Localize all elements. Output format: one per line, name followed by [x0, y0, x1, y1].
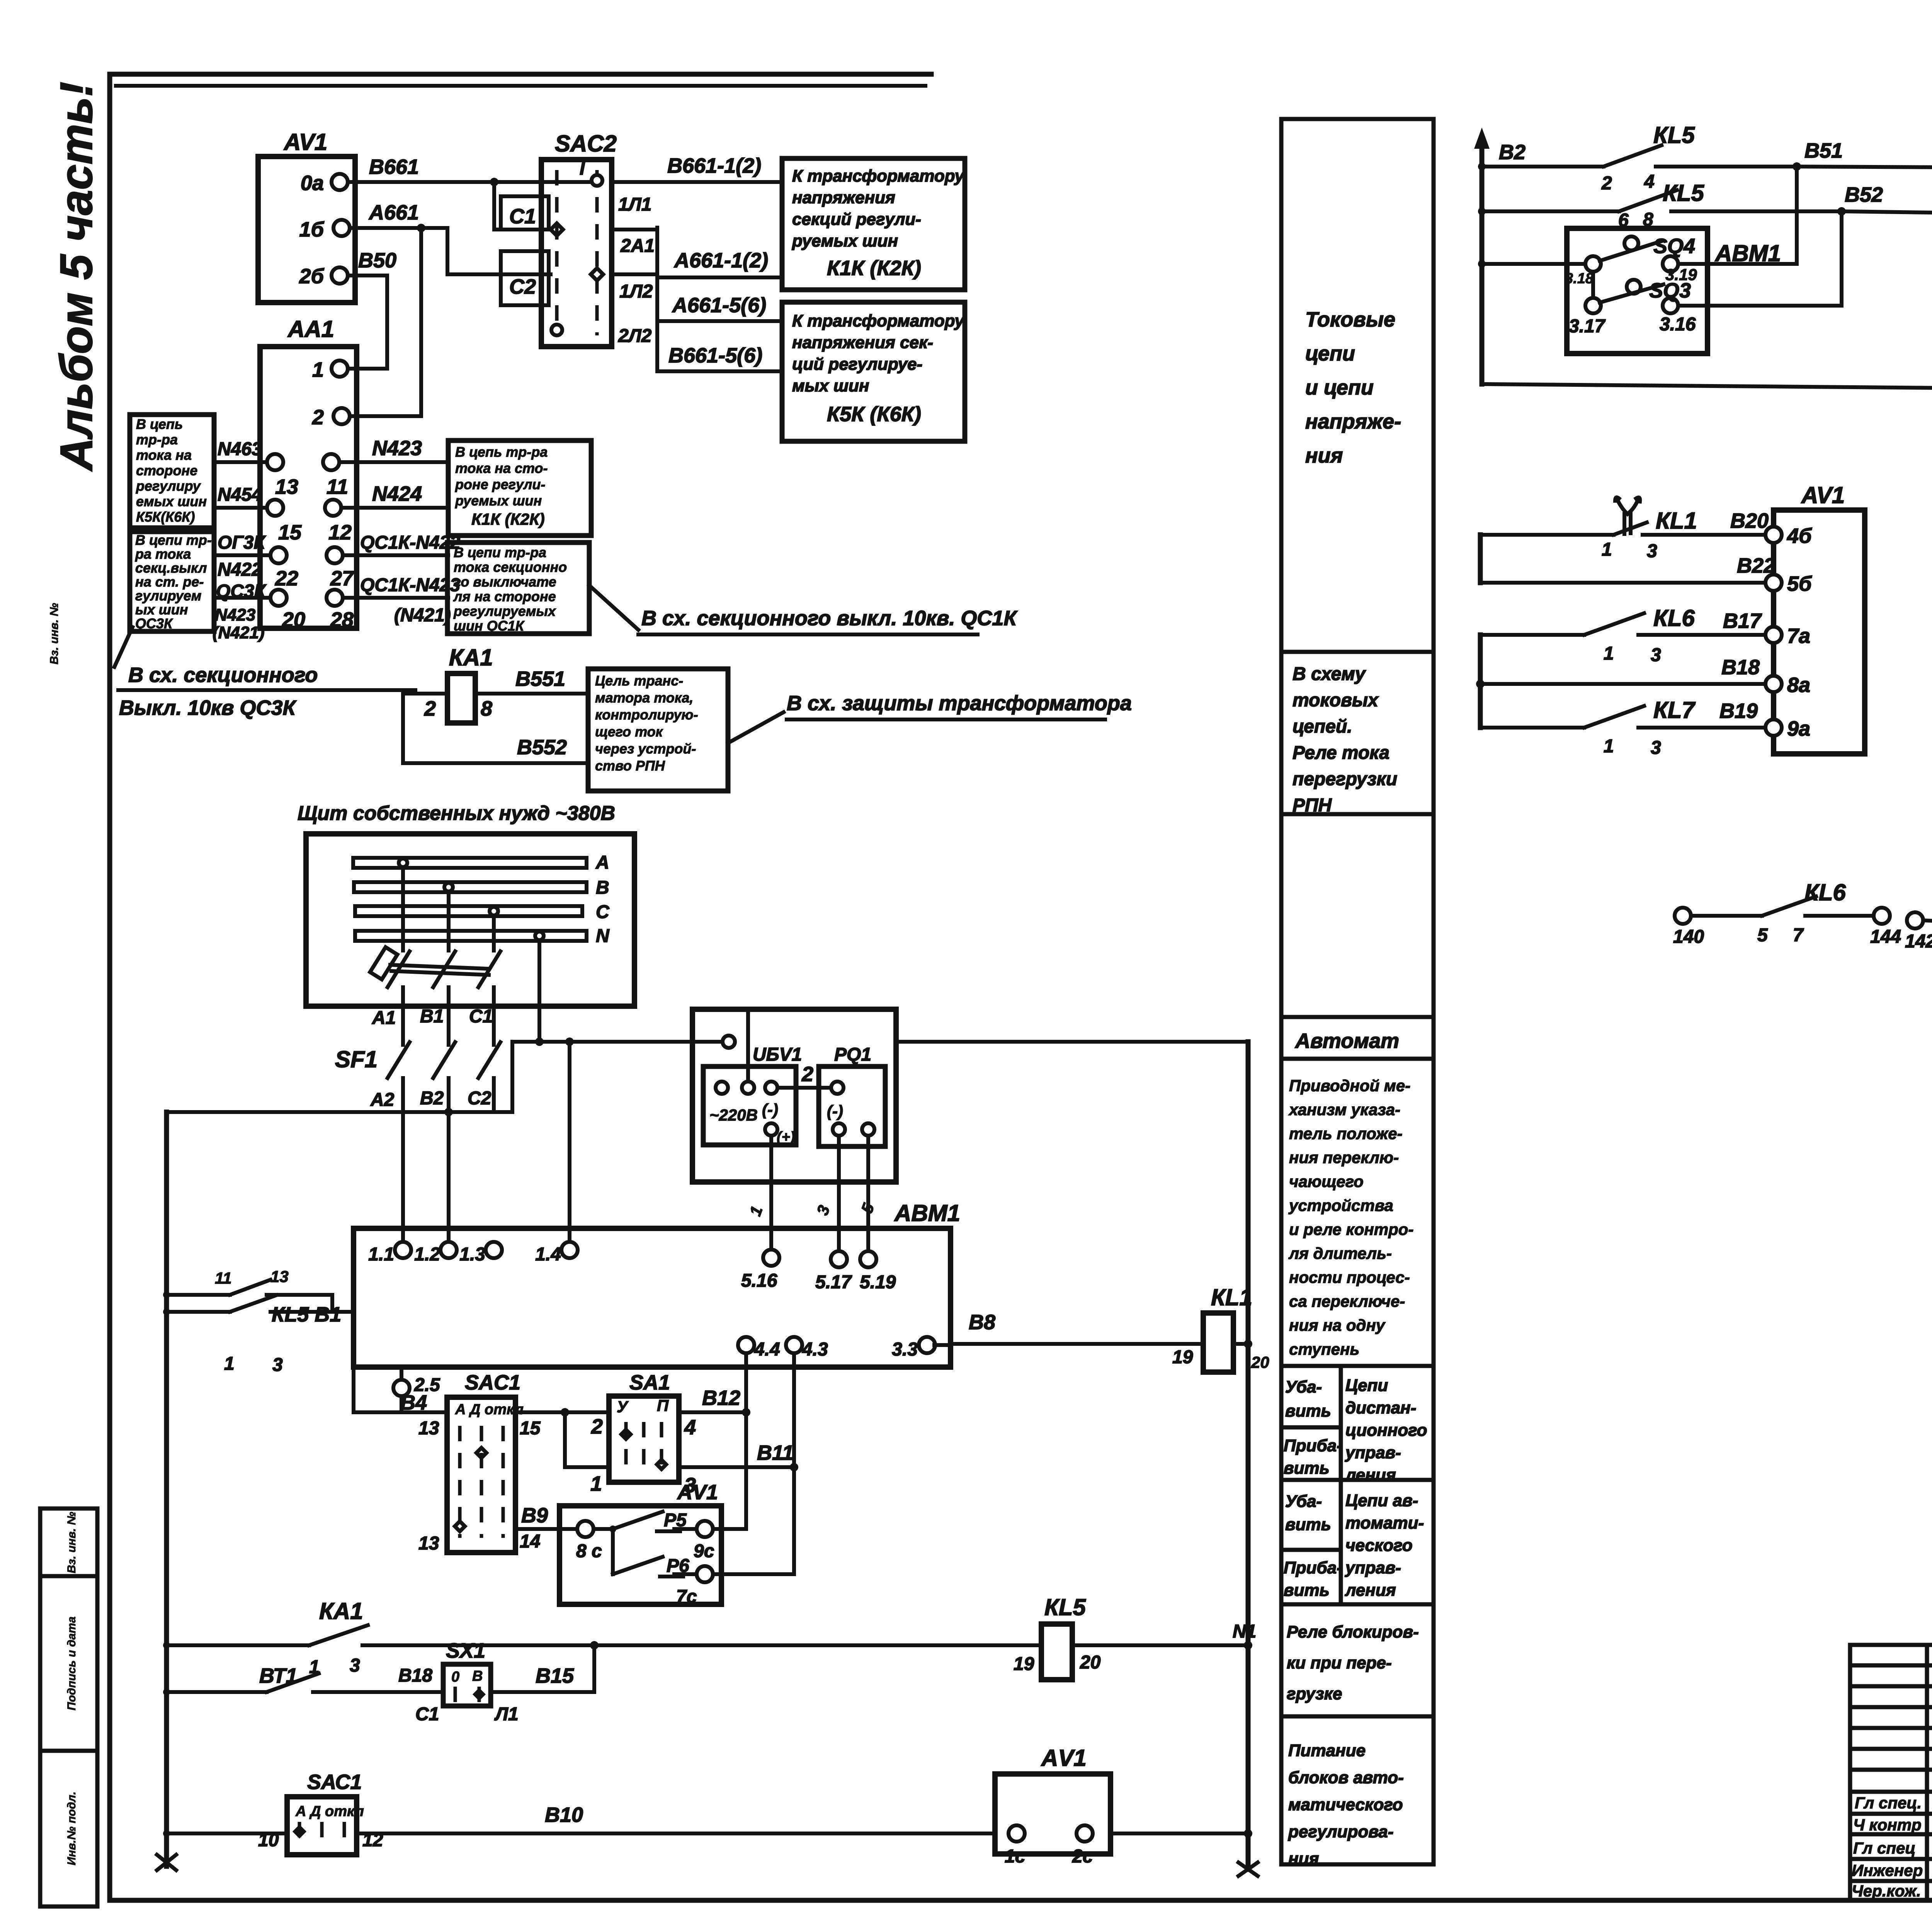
svg-text:В52: В52	[1845, 183, 1883, 206]
svg-text:Уба-: Уба-	[1285, 1378, 1322, 1396]
svg-text:Ч контр: Ч контр	[1853, 1816, 1922, 1834]
node B52	[1837, 207, 1846, 216]
svg-text:N463: N463	[218, 439, 262, 459]
svg-text:Цепи ав-: Цепи ав-	[1345, 1491, 1418, 1510]
svg-text:140: 140	[1673, 927, 1704, 947]
svg-text:ханизм указа-: ханизм указа-	[1288, 1100, 1400, 1119]
svg-text:тока на сто-: тока на сто-	[455, 460, 548, 476]
wire 2 between UБV1 and РQ1	[777, 1086, 831, 1090]
svg-text:7а: 7а	[1787, 624, 1810, 648]
busbar B	[354, 882, 587, 892]
leader to transformer protection note	[728, 712, 784, 743]
wire В15	[491, 1690, 594, 1694]
busbar C	[355, 906, 582, 916]
svg-text:А661: А661	[368, 201, 419, 224]
svg-text:ра тока: ра тока	[135, 546, 191, 562]
svg-text:АV1: АV1	[1041, 1745, 1087, 1771]
svg-text:Гл спец.: Гл спец.	[1855, 1794, 1922, 1812]
svg-text:гулируем: гулируем	[135, 588, 201, 604]
svg-text:(N421): (N421)	[394, 605, 451, 626]
svg-text:В50: В50	[358, 249, 396, 272]
svg-text:ния на одну: ния на одну	[1289, 1316, 1386, 1334]
svg-text:А Д откл: А Д откл	[295, 1803, 364, 1820]
node on В661	[490, 178, 498, 186]
distribution board box	[306, 834, 634, 1006]
svg-text:роне регули-: роне регули-	[455, 476, 545, 492]
svg-text:и цепи: и цепи	[1305, 376, 1374, 399]
riser 4.4 - B12 - 9с	[713, 1527, 746, 1531]
wire B18	[1480, 682, 1765, 686]
svg-text:П: П	[657, 1396, 669, 1415]
svg-text:управ-: управ-	[1345, 1443, 1401, 1462]
standalone contact KL6 (140-144)	[1675, 908, 1691, 924]
svg-text:управ-: управ-	[1345, 1558, 1401, 1577]
destination box: to voltage transformer K5K(K6K)	[782, 302, 965, 441]
wire А661 from AV1:1б	[350, 226, 421, 230]
position indicator UБV1	[703, 1066, 796, 1145]
svg-text:В: В	[596, 878, 609, 898]
svg-text:В10: В10	[545, 1803, 583, 1827]
svg-text:N424: N424	[372, 482, 422, 505]
pin 15 of AA1	[267, 500, 283, 516]
svg-text:КА1: КА1	[319, 1598, 363, 1624]
svg-text:19: 19	[1172, 1347, 1193, 1367]
svg-text:АА1: АА1	[287, 316, 334, 342]
pin 1б of AV1	[333, 220, 350, 236]
wire to KL4	[1482, 384, 1932, 390]
right wire N423	[339, 460, 448, 464]
svg-text:3: 3	[1651, 645, 1661, 665]
breaker QF poles	[388, 951, 410, 987]
АВМ1 pin 1.3	[486, 1242, 502, 1258]
position switch SX1	[443, 1664, 491, 1706]
svg-text:3: 3	[272, 1355, 283, 1375]
wires down to АВМ1 pins 5.16 5.17 5.19	[769, 1136, 773, 1250]
contact unit AV1 (P5/P6)	[560, 1506, 721, 1604]
АВМ1 pin 4.3	[792, 1345, 796, 1467]
pin 8а	[1765, 676, 1782, 692]
svg-text:22: 22	[275, 567, 298, 590]
supply row to drive unit	[512, 1040, 692, 1044]
riser to АВМ1 pin 1.4	[568, 1042, 571, 1250]
svg-text:КL5: КL5	[1044, 1594, 1087, 1620]
right wire N424	[341, 506, 448, 510]
svg-text:К5К(К6К): К5К(К6К)	[136, 509, 195, 525]
svg-text:5: 5	[1757, 925, 1768, 946]
svg-text:3.3: 3.3	[892, 1339, 918, 1360]
svg-text:2: 2	[591, 1415, 603, 1438]
wire В551 from КА1	[475, 692, 588, 696]
svg-text:13: 13	[275, 475, 298, 498]
switch SA1	[609, 1396, 679, 1482]
svg-text:КL5: КL5	[1663, 180, 1705, 206]
svg-text:через устрой-: через устрой-	[595, 741, 696, 757]
horizontal link to left bus	[167, 1110, 512, 1114]
svg-text:2Л2: 2Л2	[618, 326, 652, 346]
svg-text:КL5 В1: КL5 В1	[272, 1303, 341, 1326]
svg-text:РQ1: РQ1	[834, 1044, 871, 1065]
svg-text:N422: N422	[218, 560, 262, 580]
relay contact KL1 with release symbol / wire B20	[1480, 533, 1614, 537]
svg-text:Автомат: Автомат	[1294, 1029, 1399, 1053]
svg-text:~220В: ~220В	[709, 1106, 758, 1124]
svg-text:щего ток: щего ток	[595, 724, 663, 740]
pin 28 of AA1	[327, 590, 343, 606]
svg-text:2: 2	[1601, 173, 1612, 194]
АВМ1 pin 1.4	[561, 1242, 578, 1258]
svg-text:мых шин: мых шин	[792, 376, 869, 395]
svg-text:В сх. секционного выкл. 10кв.: В сх. секционного выкл. 10кв. QC1К	[641, 607, 1018, 630]
svg-text:1: 1	[312, 358, 324, 381]
svg-text:С2: С2	[468, 1088, 492, 1109]
svg-text:SХ1: SХ1	[446, 1639, 485, 1662]
relay contact KL5 (6-8)	[1619, 190, 1677, 211]
svg-text:С: С	[596, 902, 610, 922]
middle table sub-dividers	[1339, 1366, 1343, 1604]
left wires ОГ3К / N422	[214, 553, 270, 557]
node B51	[1793, 162, 1801, 171]
svg-text:перегрузки: перегрузки	[1293, 769, 1397, 789]
switch SAC1 (supply) row В10	[167, 1832, 287, 1835]
svg-text:токовых: токовых	[1293, 690, 1379, 711]
svg-text:SAC2: SAC2	[555, 131, 617, 156]
wire B22	[1480, 581, 1765, 585]
wire А661-1(2) to K1K box	[657, 276, 782, 279]
svg-text:В17: В17	[1723, 609, 1762, 633]
svg-text:А2: А2	[370, 1090, 395, 1110]
svg-text:КL5: КL5	[1653, 122, 1696, 148]
svg-text:С2: С2	[509, 275, 536, 298]
svg-text:8а: 8а	[1787, 673, 1810, 697]
wire В8 from АВМ1 3.3 to KL1	[951, 1342, 1203, 1346]
pin 9а	[1765, 719, 1782, 736]
svg-text:3.17: 3.17	[1569, 316, 1606, 337]
pin 13 of AA1	[267, 454, 283, 470]
svg-text:цепей.: цепей.	[1293, 716, 1352, 737]
C2 jog up to supply row	[494, 1042, 512, 1112]
svg-text:14: 14	[520, 1531, 540, 1552]
svg-text:го выключате: го выключате	[454, 574, 556, 590]
svg-text:2: 2	[312, 406, 324, 429]
right wire QC1К-N422	[343, 553, 448, 557]
svg-text:КL6: КL6	[1804, 879, 1846, 905]
svg-text:1: 1	[1604, 736, 1614, 757]
svg-text:ство РПН: ство РПН	[595, 758, 665, 774]
svg-text:Приводной ме-: Приводной ме-	[1289, 1077, 1410, 1095]
wire B2 / B51 row	[1482, 165, 1604, 168]
limit switch unit АВМ1	[1567, 228, 1708, 354]
svg-text:ния: ния	[1288, 1849, 1319, 1868]
svg-text:ления: ления	[1345, 1466, 1396, 1485]
svg-text:цепи: цепи	[1305, 342, 1355, 365]
pin 27 of AA1	[327, 547, 343, 563]
svg-text:В сх. секционного: В сх. секционного	[128, 663, 318, 687]
svg-text:QC3К: QC3К	[135, 616, 173, 631]
svg-text:7с: 7с	[676, 1587, 697, 1607]
busbar N	[355, 931, 587, 941]
riser from SQ4 to B51	[1795, 167, 1799, 264]
svg-text:К1К (К2К): К1К (К2К)	[827, 257, 921, 280]
svg-text:SAC1: SAC1	[465, 1371, 520, 1394]
wire В661-5(6) to K5K box	[657, 369, 782, 373]
destination box: to voltage transformer K1K(K2K)	[782, 158, 965, 290]
corner down to row H3	[352, 1312, 355, 1412]
svg-text:1с: 1с	[1005, 1846, 1025, 1867]
svg-text:матора тока,: матора тока,	[595, 690, 693, 706]
svg-text:В19: В19	[1719, 699, 1758, 723]
svg-text:КL6: КL6	[1653, 605, 1695, 631]
svg-text:устройства: устройства	[1288, 1196, 1393, 1214]
row to SAC1	[354, 1410, 447, 1414]
svg-text:ности процес-: ности процес-	[1289, 1268, 1410, 1286]
svg-text:1: 1	[590, 1472, 602, 1495]
svg-text:3: 3	[350, 1655, 360, 1676]
svg-text:144: 144	[1870, 927, 1901, 947]
bus nodes	[1478, 163, 1486, 170]
pin 0a of AV1	[332, 174, 348, 190]
svg-text:В18: В18	[1721, 656, 1760, 679]
drawing frame border	[107, 74, 112, 1900]
phase feeders down to АВМ1	[401, 1078, 405, 1250]
node on А661	[417, 224, 425, 232]
pin 5б	[1765, 575, 1782, 591]
svg-text:КL7: КL7	[1653, 697, 1696, 723]
svg-text:13: 13	[418, 1418, 439, 1439]
current contact КА1 row	[167, 1643, 309, 1647]
svg-text:В сх. защиты трансформатора: В сх. защиты трансформатора	[787, 692, 1132, 715]
destination box: CT circuit of section breaker QC1K	[447, 543, 589, 634]
riser end mark	[1238, 1862, 1258, 1876]
svg-text:QC3К: QC3К	[216, 581, 267, 602]
svg-text:ций регулируе-: ций регулируе-	[792, 355, 922, 374]
svg-text:А: А	[595, 852, 609, 873]
svg-text:1: 1	[1602, 539, 1612, 560]
svg-text:4б: 4б	[1787, 524, 1812, 548]
svg-text:емых шин: емых шин	[136, 493, 207, 509]
svg-text:Щит собственных нужд ~380В: Щит собственных нужд ~380В	[298, 802, 615, 825]
pin 8с	[577, 1521, 594, 1537]
svg-text:ля на стороне: ля на стороне	[453, 588, 556, 604]
svg-text:1.1: 1.1	[368, 1244, 394, 1265]
changeover switch SAC2	[541, 160, 612, 347]
svg-text:ОГ3К: ОГ3К	[218, 532, 266, 553]
svg-text:SQ3: SQ3	[1649, 279, 1691, 302]
svg-text:2: 2	[801, 1063, 813, 1086]
left wire N454	[214, 506, 267, 510]
bus for KL1/B22 rows	[1478, 535, 1483, 583]
pin 12 of AA1	[325, 500, 341, 516]
automatic control unit АВМ1	[354, 1228, 951, 1367]
svg-text:8: 8	[481, 697, 492, 720]
svg-text:13: 13	[418, 1533, 439, 1554]
svg-text:2: 2	[424, 697, 436, 720]
svg-text:вить: вить	[1285, 1401, 1331, 1420]
svg-text:ых шин: ых шин	[135, 602, 188, 617]
svg-text:ВТ1: ВТ1	[259, 1664, 298, 1687]
svg-text:28: 28	[330, 608, 354, 631]
left margin stamp boxes	[40, 1509, 97, 1576]
svg-text:В661: В661	[369, 155, 419, 179]
contact P5	[613, 1512, 663, 1529]
svg-text:Приба-: Приба-	[1284, 1558, 1342, 1577]
svg-text:0: 0	[451, 1669, 459, 1685]
svg-text:UБV1: UБV1	[753, 1044, 802, 1065]
KL1 release symbol	[1622, 514, 1626, 534]
svg-text:Реле тока: Реле тока	[1293, 743, 1389, 763]
svg-text:4: 4	[684, 1416, 696, 1439]
svg-text:I: I	[580, 158, 585, 179]
svg-text:SАС1: SАС1	[307, 1770, 362, 1794]
svg-text:5.17: 5.17	[815, 1272, 852, 1293]
svg-text:2б: 2б	[299, 265, 325, 288]
svg-text:Выкл. 10кв QC3К: Выкл. 10кв QC3К	[119, 696, 297, 719]
svg-text:Приба-: Приба-	[1284, 1436, 1342, 1455]
leader line to QC1K note	[589, 585, 638, 630]
svg-text:1.3: 1.3	[459, 1244, 485, 1265]
riser 4.3 - B11 - 7с	[713, 1572, 794, 1576]
svg-text:АV1: АV1	[677, 1481, 718, 1504]
svg-text:15: 15	[520, 1418, 541, 1439]
svg-text:2с: 2с	[1072, 1846, 1093, 1867]
svg-text:27: 27	[330, 567, 355, 590]
switch SAC1	[447, 1397, 515, 1553]
svg-text:В2: В2	[420, 1088, 444, 1109]
svg-text:2А1: 2А1	[620, 236, 655, 256]
relay coil KL1	[1203, 1313, 1233, 1372]
svg-text:1б: 1б	[299, 218, 325, 241]
svg-text:1.2: 1.2	[414, 1244, 440, 1265]
svg-text:3: 3	[1651, 738, 1661, 758]
staff/signature table	[1850, 1645, 1932, 1900]
svg-text:N423: N423	[215, 605, 255, 624]
svg-text:142: 142	[1905, 931, 1932, 952]
svg-text:1Л1: 1Л1	[618, 194, 651, 215]
svg-text:3.16: 3.16	[1660, 314, 1696, 335]
АВМ1 pin 4.4	[744, 1345, 748, 1412]
svg-text:7: 7	[1793, 925, 1804, 946]
svg-text:томати-: томати-	[1345, 1514, 1424, 1532]
svg-text:20: 20	[282, 608, 305, 631]
wire А661 to SAC2 C2 input	[421, 228, 551, 274]
svg-text:11: 11	[215, 1269, 232, 1287]
svg-text:4: 4	[1644, 172, 1655, 192]
svg-text:А661-5(6): А661-5(6)	[672, 294, 766, 317]
wire SAC1 to SA1	[515, 1410, 609, 1414]
left vertical bus	[164, 1112, 169, 1866]
svg-text:Вз. инв. №: Вз. инв. №	[65, 1512, 78, 1573]
svg-text:К5К (К6К): К5К (К6К)	[827, 403, 921, 426]
svg-text:N423: N423	[372, 437, 422, 460]
drive unit outer box	[692, 1009, 896, 1182]
svg-text:В11: В11	[757, 1441, 794, 1464]
main right riser	[1246, 1042, 1251, 1869]
svg-text:Подпись и дата: Подпись и дата	[65, 1616, 78, 1710]
svg-text:(-): (-)	[762, 1100, 778, 1119]
svg-text:15: 15	[278, 521, 302, 544]
svg-text:В цепи тр-ра: В цепи тр-ра	[454, 544, 546, 560]
wire В9 from SAC1	[515, 1527, 578, 1531]
svg-text:1: 1	[1604, 643, 1614, 664]
source box: circuit of CT K5K(K6K)	[130, 415, 214, 528]
svg-text:и реле контро-: и реле контро-	[1289, 1220, 1413, 1238]
svg-text:АВМ1: АВМ1	[894, 1200, 960, 1226]
limit switch SQ3	[1585, 298, 1601, 313]
svg-text:В551: В551	[515, 667, 565, 690]
pin 7а	[1765, 627, 1782, 643]
svg-text:стороне: стороне	[136, 463, 197, 478]
middle legend table	[1281, 119, 1434, 1864]
svg-text:ступень: ступень	[1289, 1340, 1359, 1358]
svg-text:4.3: 4.3	[802, 1339, 828, 1360]
riser from SQ3 to B52	[1840, 211, 1844, 306]
svg-text:1.4: 1.4	[535, 1244, 561, 1265]
unit supply pin	[723, 1036, 735, 1048]
svg-text:9с: 9с	[694, 1541, 714, 1561]
contact P6	[611, 1529, 615, 1574]
svg-text:1: 1	[224, 1354, 235, 1374]
pin 4б	[1765, 527, 1782, 543]
svg-text:тока секционно: тока секционно	[454, 559, 567, 575]
standalone contact KL7 (142-143)	[1907, 912, 1923, 929]
svg-text:Инженер: Инженер	[1852, 1861, 1923, 1879]
leader line to QC3K note	[114, 627, 133, 667]
current relay КА1 coil	[447, 673, 475, 723]
pin 1 of AA1	[332, 361, 348, 377]
svg-text:ля длитель-: ля длитель-	[1288, 1244, 1392, 1262]
svg-text:вить: вить	[1284, 1581, 1330, 1600]
svg-text:чающего: чающего	[1289, 1172, 1364, 1190]
svg-text:8 с: 8 с	[576, 1541, 602, 1561]
svg-text:Уба-: Уба-	[1285, 1492, 1322, 1511]
wire В552 loop	[403, 694, 588, 763]
busbar A	[353, 858, 587, 868]
svg-text:шин QC1К: шин QC1К	[454, 618, 525, 634]
svg-text:Питание: Питание	[1288, 1741, 1366, 1760]
svg-text:20: 20	[1080, 1652, 1101, 1673]
АВМ1 pin 1.1	[395, 1242, 411, 1258]
fuse block AV1 (1с 2с)	[995, 1774, 1111, 1854]
pin 22 of AA1	[270, 547, 287, 563]
svg-text:вить: вить	[1284, 1459, 1330, 1478]
svg-text:В цепь: В цепь	[136, 416, 183, 432]
svg-text:А Д откл: А Д откл	[455, 1401, 524, 1418]
svg-text:В552: В552	[517, 736, 567, 759]
bus for B17/B18/B19 rows	[1478, 635, 1483, 728]
svg-text:В2: В2	[1499, 141, 1526, 164]
svg-text:вить: вить	[1285, 1515, 1331, 1534]
svg-text:5.19: 5.19	[860, 1272, 896, 1293]
svg-text:AV1: AV1	[283, 129, 327, 155]
svg-text:напряжения: напряжения	[792, 188, 895, 207]
svg-text:19: 19	[1014, 1654, 1034, 1674]
wire stub C1 into SAC2	[494, 182, 551, 230]
svg-text:К трансформатору: К трансформатору	[792, 311, 965, 330]
wire 2 into КА1	[403, 692, 447, 696]
svg-text:К1К (К2К): К1К (К2К)	[471, 510, 545, 528]
left wire N463	[214, 460, 267, 464]
wire А661 branch down to AA1:2	[350, 228, 421, 416]
АВМ1 pin 3.3	[919, 1337, 935, 1353]
terminal block AA1	[260, 347, 357, 628]
svg-text:напряжения сек-: напряжения сек-	[792, 333, 933, 352]
svg-text:5б: 5б	[1787, 572, 1812, 595]
SAC2 output bus	[612, 228, 657, 231]
svg-text:1: 1	[746, 1204, 766, 1218]
svg-text:напряже-: напряже-	[1305, 410, 1401, 433]
svg-text:ки при пере-: ки при пере-	[1287, 1653, 1392, 1672]
svg-text:Чер.кож.: Чер.кож.	[1852, 1882, 1921, 1900]
svg-text:3: 3	[1647, 541, 1657, 561]
